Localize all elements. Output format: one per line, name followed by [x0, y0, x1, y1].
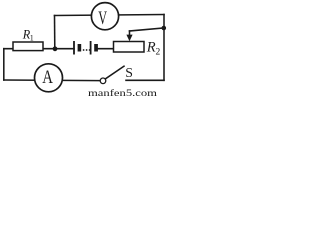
svg-text:2: 2: [156, 48, 161, 58]
svg-text:1: 1: [30, 33, 34, 42]
svg-text:manfen5.com: manfen5.com: [88, 88, 158, 98]
svg-text:R: R: [146, 40, 156, 56]
svg-text:S: S: [125, 65, 133, 80]
svg-text:A: A: [42, 66, 53, 87]
svg-text:V: V: [98, 9, 107, 29]
